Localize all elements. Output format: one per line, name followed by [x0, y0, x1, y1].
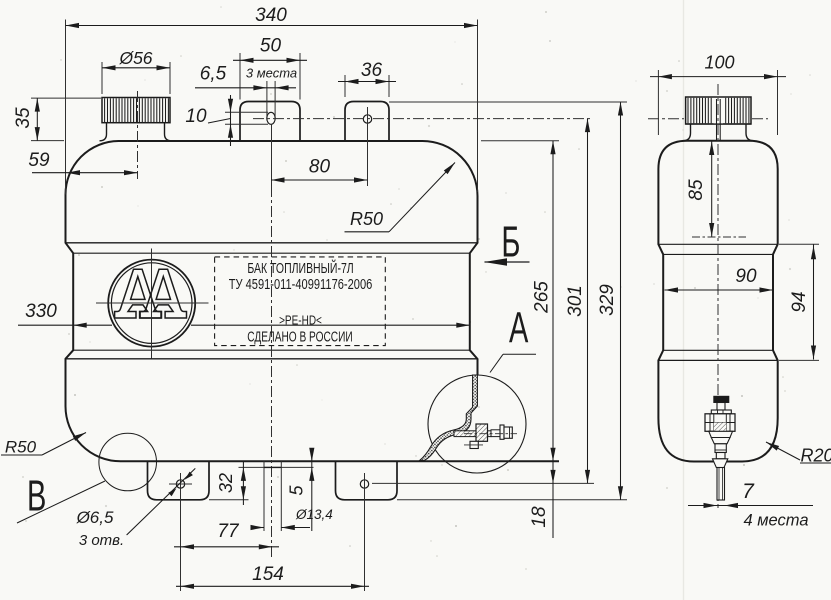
svg-text:СДЕЛАНО В РОССИИ: СДЕЛАНО В РОССИИ	[247, 329, 352, 345]
dim 36	[338, 60, 396, 84]
dim 330	[18, 301, 470, 328]
bottom tab 2	[336, 461, 398, 500]
svg-text:4 места: 4 места	[743, 512, 808, 530]
svg-text:ТУ 4591-011-40991176-2006: ТУ 4591-011-40991176-2006	[229, 275, 373, 292]
dim 35	[13, 98, 40, 141]
svg-text:35: 35	[13, 107, 34, 129]
bottom tab 2 hole	[360, 480, 368, 488]
dim d13.4	[251, 507, 333, 530]
svg-text:В: В	[27, 470, 46, 520]
bottom tab 1	[148, 461, 210, 500]
svg-text:А: А	[509, 302, 528, 352]
dim 6.5 ext lines	[267, 81, 275, 116]
filler cap neck	[100, 123, 172, 141]
logo crosshair vertical	[151, 249, 153, 359]
dim 100 ext lines	[658, 70, 777, 135]
svg-text:154: 154	[252, 564, 284, 585]
bottom tab hole ext verticals	[181, 495, 365, 591]
dim 77	[174, 521, 279, 549]
top holes centerline / ext of dim 301	[253, 118, 593, 120]
top tab 2 hole vert centerline	[367, 107, 369, 131]
band upper outer line	[66, 242, 478, 244]
side centerline vertical	[717, 84, 719, 508]
svg-text:3 места: 3 места	[246, 66, 297, 81]
svg-text:БАК ТОПЛИВНЫЙ-7Л: БАК ТОПЛИВНЫЙ-7Л	[247, 259, 353, 276]
dim 329	[597, 102, 623, 500]
svg-text:7: 7	[742, 480, 755, 503]
svg-text:340: 340	[255, 5, 287, 26]
dim 154	[176, 564, 369, 589]
svg-text:50: 50	[260, 36, 282, 57]
logo circle	[108, 260, 195, 347]
drain boss bottom / ext line	[239, 466, 314, 468]
logo crosshair horizontal	[96, 302, 209, 304]
svg-text:5: 5	[287, 485, 307, 496]
band lower outer line	[66, 358, 478, 360]
svg-text:36: 36	[361, 60, 383, 81]
dim 80	[271, 157, 368, 183]
svg-text:80: 80	[309, 157, 331, 178]
tank bottom line	[121, 460, 560, 462]
svg-text:Ø6,5: Ø6,5	[76, 508, 114, 527]
svg-text:265: 265	[532, 281, 553, 314]
side view outline	[658, 141, 777, 462]
bottom ext line tab bottom level	[397, 499, 627, 501]
side sender centerline	[692, 236, 746, 238]
dim d6.5 3 holes	[76, 468, 196, 549]
top tab 1 slot 6.5x10	[267, 112, 275, 124]
svg-text:6,5: 6,5	[200, 64, 227, 85]
bottom tab 1 hole centerlines	[169, 473, 192, 495]
dim 90	[665, 266, 774, 293]
logo letter A right	[140, 269, 186, 318]
dim 50 ext lines	[240, 53, 300, 100]
dim 265 ext line	[481, 140, 559, 142]
top tab 2 hole	[363, 115, 371, 123]
side cap knurl	[686, 97, 751, 141]
tank body outline	[66, 141, 478, 461]
side band lines	[658, 244, 777, 360]
svg-text:90: 90	[735, 266, 757, 287]
svg-text:32: 32	[216, 473, 236, 493]
svg-text:18: 18	[529, 506, 550, 528]
svg-text:59: 59	[28, 150, 50, 171]
svg-text:3 отв.: 3 отв.	[79, 532, 124, 549]
filler cap centerline	[137, 91, 139, 179]
fitting nipple	[491, 430, 500, 437]
side cap neck	[683, 124, 754, 141]
dim 32	[216, 462, 246, 506]
dim 32 ext line	[209, 499, 249, 501]
label text line 3	[279, 313, 322, 328]
dim 265	[532, 141, 556, 462]
dim 94 ext lines	[779, 244, 819, 360]
fitting end nut	[504, 427, 512, 438]
svg-text:85: 85	[686, 179, 707, 201]
svg-text:Ø13,4: Ø13,4	[295, 507, 333, 522]
section label B	[484, 217, 530, 267]
dim 18	[529, 461, 556, 538]
dim d56 ext lines	[102, 62, 170, 94]
svg-text:301: 301	[565, 285, 586, 317]
svg-text:329: 329	[597, 284, 618, 316]
fitting shank	[454, 431, 491, 437]
svg-text:Ø56: Ø56	[118, 48, 152, 68]
dim 5	[287, 448, 315, 531]
radius R50 bottom left	[1, 433, 86, 457]
fitting lower block	[464, 441, 483, 448]
logo letter A left	[115, 269, 161, 318]
tank vertical centerline	[271, 186, 273, 558]
dim 6.5	[195, 64, 296, 91]
side drain fitting	[705, 396, 735, 500]
fitting flange	[500, 425, 504, 439]
radius R20	[766, 442, 831, 466]
dim 36 ext lines	[345, 75, 389, 97]
dim d56	[102, 48, 170, 70]
dim 94	[789, 244, 816, 359]
svg-text:10: 10	[185, 106, 207, 127]
bottom tab 2 hole vert centerline	[364, 473, 366, 495]
dim 7	[688, 480, 813, 508]
fitting centerline	[464, 433, 517, 435]
dim 85	[686, 142, 714, 237]
bottom ext line hole level	[372, 482, 594, 484]
svg-text:100: 100	[704, 53, 734, 73]
label text line 1	[247, 259, 353, 276]
svg-text:77: 77	[217, 521, 240, 542]
dim 340	[66, 5, 478, 28]
bottom tab 1 hole	[176, 480, 184, 488]
top tab 1	[240, 102, 300, 142]
dim 301	[565, 119, 590, 484]
dim 80 ext lines	[272, 123, 368, 186]
side holes centerline	[648, 118, 768, 120]
dim 35 ext lines	[31, 98, 101, 141]
dim 50	[233, 36, 307, 81]
label dashed box	[215, 257, 386, 346]
filler cap knurl	[102, 98, 170, 123]
band lower inner line	[73, 349, 470, 351]
band upper inner line	[73, 252, 470, 254]
detail circle B	[99, 433, 157, 491]
svg-text:R50: R50	[350, 209, 383, 229]
dim 10 ext lines	[225, 112, 268, 124]
svg-text:94: 94	[789, 291, 810, 312]
label text line 4	[247, 329, 352, 345]
detail label A	[490, 302, 536, 372]
label text line 2	[229, 275, 373, 292]
dim 329 top ext line	[389, 101, 627, 103]
radius R50 top right	[345, 163, 456, 232]
tank wall section stippled	[420, 375, 478, 461]
dim 100	[650, 53, 786, 80]
fitting hex body	[476, 424, 488, 441]
dim 10	[185, 95, 233, 146]
dim 340 ext lines	[66, 20, 478, 195]
svg-text:R50: R50	[5, 438, 37, 457]
dim 59	[28, 150, 137, 175]
top tab 2	[345, 102, 389, 142]
drain boss sides / ext of dia13.4	[264, 461, 281, 531]
detail label V	[17, 470, 105, 523]
svg-text:330: 330	[25, 301, 57, 322]
detail circle A	[428, 375, 526, 473]
label 4 places	[743, 512, 808, 530]
